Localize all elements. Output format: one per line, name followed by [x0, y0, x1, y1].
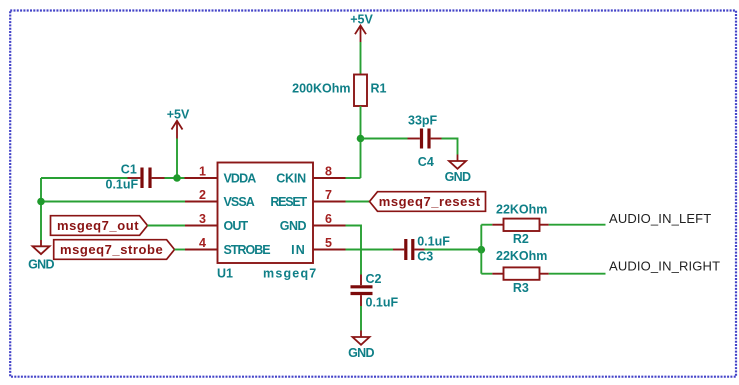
hierarchical label msgeq7_out [51, 216, 148, 236]
svg-text:33pF: 33pF [408, 114, 438, 128]
wire junction row to pin8 [345, 177, 361, 179]
wire C3 to junction [425, 249, 482, 251]
pin 3 OUT [185, 212, 248, 233]
wire pin6 to C2 column [346, 226, 362, 275]
resistor R2 22KOhm [492, 202, 549, 246]
svg-text:msgeq7_strobe: msgeq7_strobe [60, 242, 163, 257]
wire C2 to gnd [360, 306, 362, 331]
pin 6 GND [280, 212, 346, 233]
svg-text:0.1uF: 0.1uF [366, 296, 399, 310]
svg-text:RESET: RESET [270, 195, 307, 209]
svg-text:7: 7 [325, 188, 332, 202]
pin 8 CKIN [276, 165, 345, 186]
wire left rail down [40, 178, 42, 240]
svg-text:3: 3 [199, 212, 206, 226]
svg-text:GND: GND [28, 258, 54, 272]
svg-text:R3: R3 [513, 281, 529, 295]
svg-text:U1: U1 [217, 266, 233, 280]
svg-text:C3: C3 [417, 250, 433, 264]
capacitor C2 0.1uF [351, 272, 399, 310]
svg-text:AUDIO_IN_LEFT: AUDIO_IN_LEFT [609, 211, 711, 226]
svg-text:CKIN: CKIN [276, 172, 306, 186]
svg-text:C1: C1 [121, 163, 137, 177]
svg-text:msgeq7: msgeq7 [263, 266, 317, 280]
svg-text:4: 4 [199, 236, 206, 250]
node junction +5V/C1/pin1 [173, 174, 181, 182]
wire +5V to R1 [360, 42, 362, 75]
svg-text:GND: GND [445, 170, 471, 184]
svg-text:msgeq7_out: msgeq7_out [57, 218, 139, 233]
wire to R2 [481, 224, 492, 226]
op-amp U1 msgeq7 body [217, 163, 317, 281]
node junction C3/R2/R3 [478, 246, 486, 254]
wire junction to C4 [361, 138, 408, 140]
svg-text:STROBE: STROBE [224, 243, 271, 257]
pin 7 RESET [270, 188, 345, 209]
svg-text:C2: C2 [366, 272, 382, 286]
svg-text:8: 8 [325, 165, 332, 179]
svg-text:5: 5 [325, 236, 332, 250]
svg-text:0.1uF: 0.1uF [106, 177, 139, 191]
svg-text:6: 6 [325, 212, 332, 226]
power +5V (top, above R1) [350, 12, 373, 42]
wire junction vertical R2/R3 [480, 225, 482, 274]
pin 1 VDDA [185, 165, 257, 186]
wire R2 to label [549, 224, 606, 226]
wire C1 left to left rail [41, 177, 128, 179]
svg-text:AUDIO_IN_RIGHT: AUDIO_IN_RIGHT [609, 259, 720, 274]
svg-text:+5V: +5V [350, 12, 373, 26]
ground (left rail) [28, 240, 54, 272]
svg-text:VSSA: VSSA [224, 195, 255, 209]
svg-text:GND: GND [280, 219, 307, 233]
node junction R1/C4 [357, 135, 365, 143]
svg-text:R2: R2 [513, 232, 529, 246]
wire pin7 to hier label [346, 201, 370, 203]
svg-text:R1: R1 [371, 81, 387, 95]
node junction rail/pin2 [37, 198, 45, 206]
ground (C2) [348, 331, 374, 360]
wire C4 to gnd drop [442, 139, 458, 155]
wire msgeq7_out to pin3 [148, 225, 186, 227]
svg-text:22KOhm: 22KOhm [496, 249, 547, 263]
wire rail to pin2 [41, 201, 185, 203]
svg-text:msgeq7_resest: msgeq7_resest [379, 194, 481, 209]
capacitor C1 0.1uF [106, 163, 165, 192]
svg-text:GND: GND [348, 346, 374, 360]
svg-text:0.1uF: 0.1uF [417, 234, 450, 248]
pin 2 VSSA [185, 188, 255, 209]
svg-text:VDDA: VDDA [224, 172, 257, 186]
svg-text:22KOhm: 22KOhm [496, 202, 547, 216]
power +5V (left, above pin1) [167, 107, 190, 138]
resistor R1 [292, 75, 386, 107]
capacitor C3 0.1uF [393, 234, 450, 263]
wire pin5 to C3 [346, 249, 394, 251]
wire msgeq7_strobe to pin4 [175, 249, 186, 251]
wire C1 right to pin1 [165, 177, 185, 179]
svg-text:+5V: +5V [167, 107, 190, 121]
capacitor C4 33pF [408, 114, 442, 169]
svg-text:IN: IN [291, 243, 306, 257]
resistor R3 22KOhm [492, 249, 549, 295]
svg-text:OUT: OUT [224, 219, 249, 233]
wire +5V drop to pin1 row [176, 139, 178, 179]
pin 4 STROBE [185, 236, 270, 257]
wire R1 to junction and down to pin8 row [360, 106, 362, 178]
wire R3 to label [549, 273, 606, 275]
pin 5 IN [291, 236, 345, 257]
svg-text:1: 1 [199, 165, 206, 179]
svg-text:200KOhm: 200KOhm [292, 81, 350, 95]
hierarchical label msgeq7_strobe [54, 240, 175, 260]
ground (C4) [445, 155, 471, 185]
hierarchical label msgeq7_resest [370, 192, 486, 212]
svg-text:2: 2 [199, 188, 206, 202]
wire to R3 [481, 273, 492, 275]
svg-text:C4: C4 [418, 155, 434, 169]
